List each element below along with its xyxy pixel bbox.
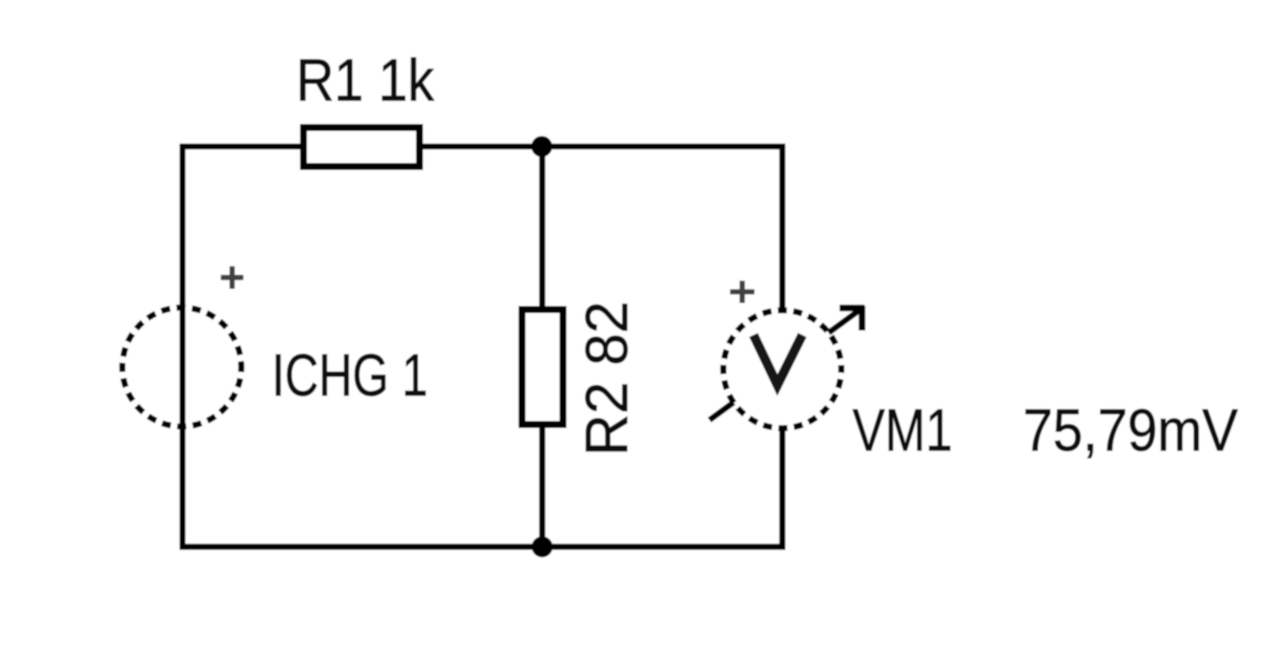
svg-text:R1 1k: R1 1k [296, 48, 434, 114]
junction node bottom [532, 536, 553, 557]
wire middle branch [539, 147, 545, 547]
wire main loop (top, left, bottom, right) [183, 147, 783, 547]
svg-text:R2 82: R2 82 [574, 301, 640, 456]
junction node top [531, 136, 552, 157]
svg-text:VM1: VM1 [853, 398, 953, 464]
svg-text:75,79mV: 75,79mV [1023, 398, 1239, 464]
svg-text:ICHG 1: ICHG 1 [272, 343, 428, 409]
current source ICHG1 (dashed circle) [122, 308, 241, 427]
voltmeter arrow shaft [710, 309, 862, 420]
voltmeter arrowhead barbs [840, 306, 865, 331]
plus sign of ICHG1 [221, 266, 244, 289]
resistor R2 body [522, 310, 563, 425]
plus sign of VM1 [730, 281, 755, 303]
voltmeter VM1 (dashed circle) [723, 310, 841, 428]
resistor R1 body [304, 128, 420, 167]
voltmeter V glyph [754, 335, 803, 385]
